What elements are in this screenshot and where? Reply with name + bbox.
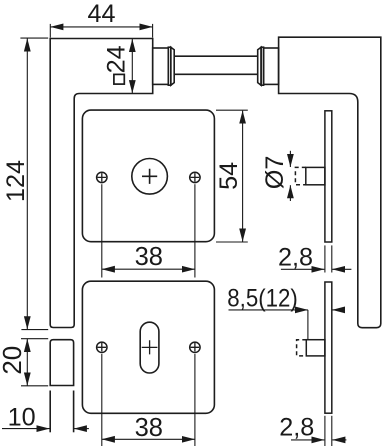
dim 124 ext top [20, 37, 48, 39]
side view bottom pin hidden (dashed) [297, 340, 307, 356]
dim dia7 arrow top [289, 151, 291, 167]
right neck [264, 48, 279, 84]
svg-text:10: 10 [8, 404, 36, 432]
dim 20 line [26, 339, 28, 386]
spindle top line [174, 55, 258, 57]
svg-text:2,8: 2,8 [278, 243, 313, 271]
grip lowest section left edge [49, 391, 51, 433]
dim 38 bottom line [102, 438, 195, 440]
dim 10 line left [2, 428, 50, 430]
screw top-left [97, 172, 107, 182]
dim 38 top line [102, 268, 195, 270]
top rose center circle [132, 159, 168, 195]
label sq24 square glyph [114, 74, 124, 84]
left lever handle (arm + descending grip) [50, 39, 153, 328]
grip lower section with 20 dim [50, 340, 73, 386]
dim 124 ext bottom [21, 329, 48, 331]
dim 20 ext top [21, 338, 48, 340]
dim 124 line [26, 38, 28, 329]
dim 2,8 bottom arrow right [332, 439, 346, 441]
dim 8,5(12) ext vertical [307, 310, 309, 339]
screw bottom-right [190, 342, 200, 352]
ext stubs below side plates (2,8 bottom) [324, 416, 326, 446]
top rose plate [82, 110, 214, 242]
dim 44 ext right [152, 24, 154, 38]
left collar bevel [171, 47, 174, 85]
grip lowest section right edge [73, 391, 75, 433]
dim dia7 arrow bottom [289, 185, 291, 201]
dim 54 ext top [216, 109, 248, 111]
svg-text:Ø7: Ø7 [261, 156, 289, 190]
dim sq24 line [131, 39, 133, 93]
left neck [153, 48, 169, 84]
dim 2,8 top arrow left [281, 268, 325, 270]
dim 38 top leader left [101, 184, 103, 277]
side view bottom rose plate [325, 282, 332, 413]
cross in center circle [142, 169, 157, 184]
dim 8,5(12) leader [229, 309, 308, 311]
dim 38 bottom leader right [194, 354, 196, 446]
screw bottom-left [97, 342, 107, 352]
top rose bottom plate [82, 281, 214, 413]
left collar ring [168, 47, 171, 85]
right collar bevel [258, 47, 261, 85]
dim 54 line [242, 111, 244, 242]
side view top pin solid [306, 167, 325, 184]
dim 2,8 top arrow right [332, 268, 351, 270]
cross in keyhole oval [142, 340, 158, 354]
svg-text:38: 38 [135, 414, 163, 442]
dim 2,8 bottom arrow left [291, 439, 324, 441]
svg-text:8,5(12): 8,5(12) [227, 284, 297, 312]
svg-text:20: 20 [0, 346, 27, 375]
spindle bottom line [174, 73, 258, 75]
side view top rose plate [325, 111, 332, 242]
svg-text:124: 124 [2, 160, 30, 202]
ext stubs below side plates (2,8 top) [324, 245, 326, 272]
dim 44 ext left [49, 24, 51, 38]
keyhole oval [140, 322, 159, 373]
svg-text:54: 54 [215, 162, 243, 190]
dim 20 ext bottom [21, 385, 48, 387]
side view top pin hidden (dashed) [295, 167, 305, 184]
dim 8,5(12) arrow right [332, 309, 345, 311]
dim 44 line [50, 26, 152, 28]
svg-text:44: 44 [87, 0, 115, 28]
svg-text:24: 24 [103, 45, 131, 73]
dim 38 top leader right [194, 184, 196, 277]
right lever handle (body + descending grip) [279, 37, 381, 328]
dim 54 ext bottom [216, 241, 248, 243]
svg-text:2,8: 2,8 [279, 413, 314, 441]
dim 10 line right [74, 428, 89, 430]
screw top-right [190, 172, 200, 182]
svg-text:38: 38 [135, 243, 163, 271]
right collar ring [261, 47, 264, 85]
side view bottom pin solid [306, 340, 325, 356]
dim 38 bottom leader left [101, 354, 103, 446]
